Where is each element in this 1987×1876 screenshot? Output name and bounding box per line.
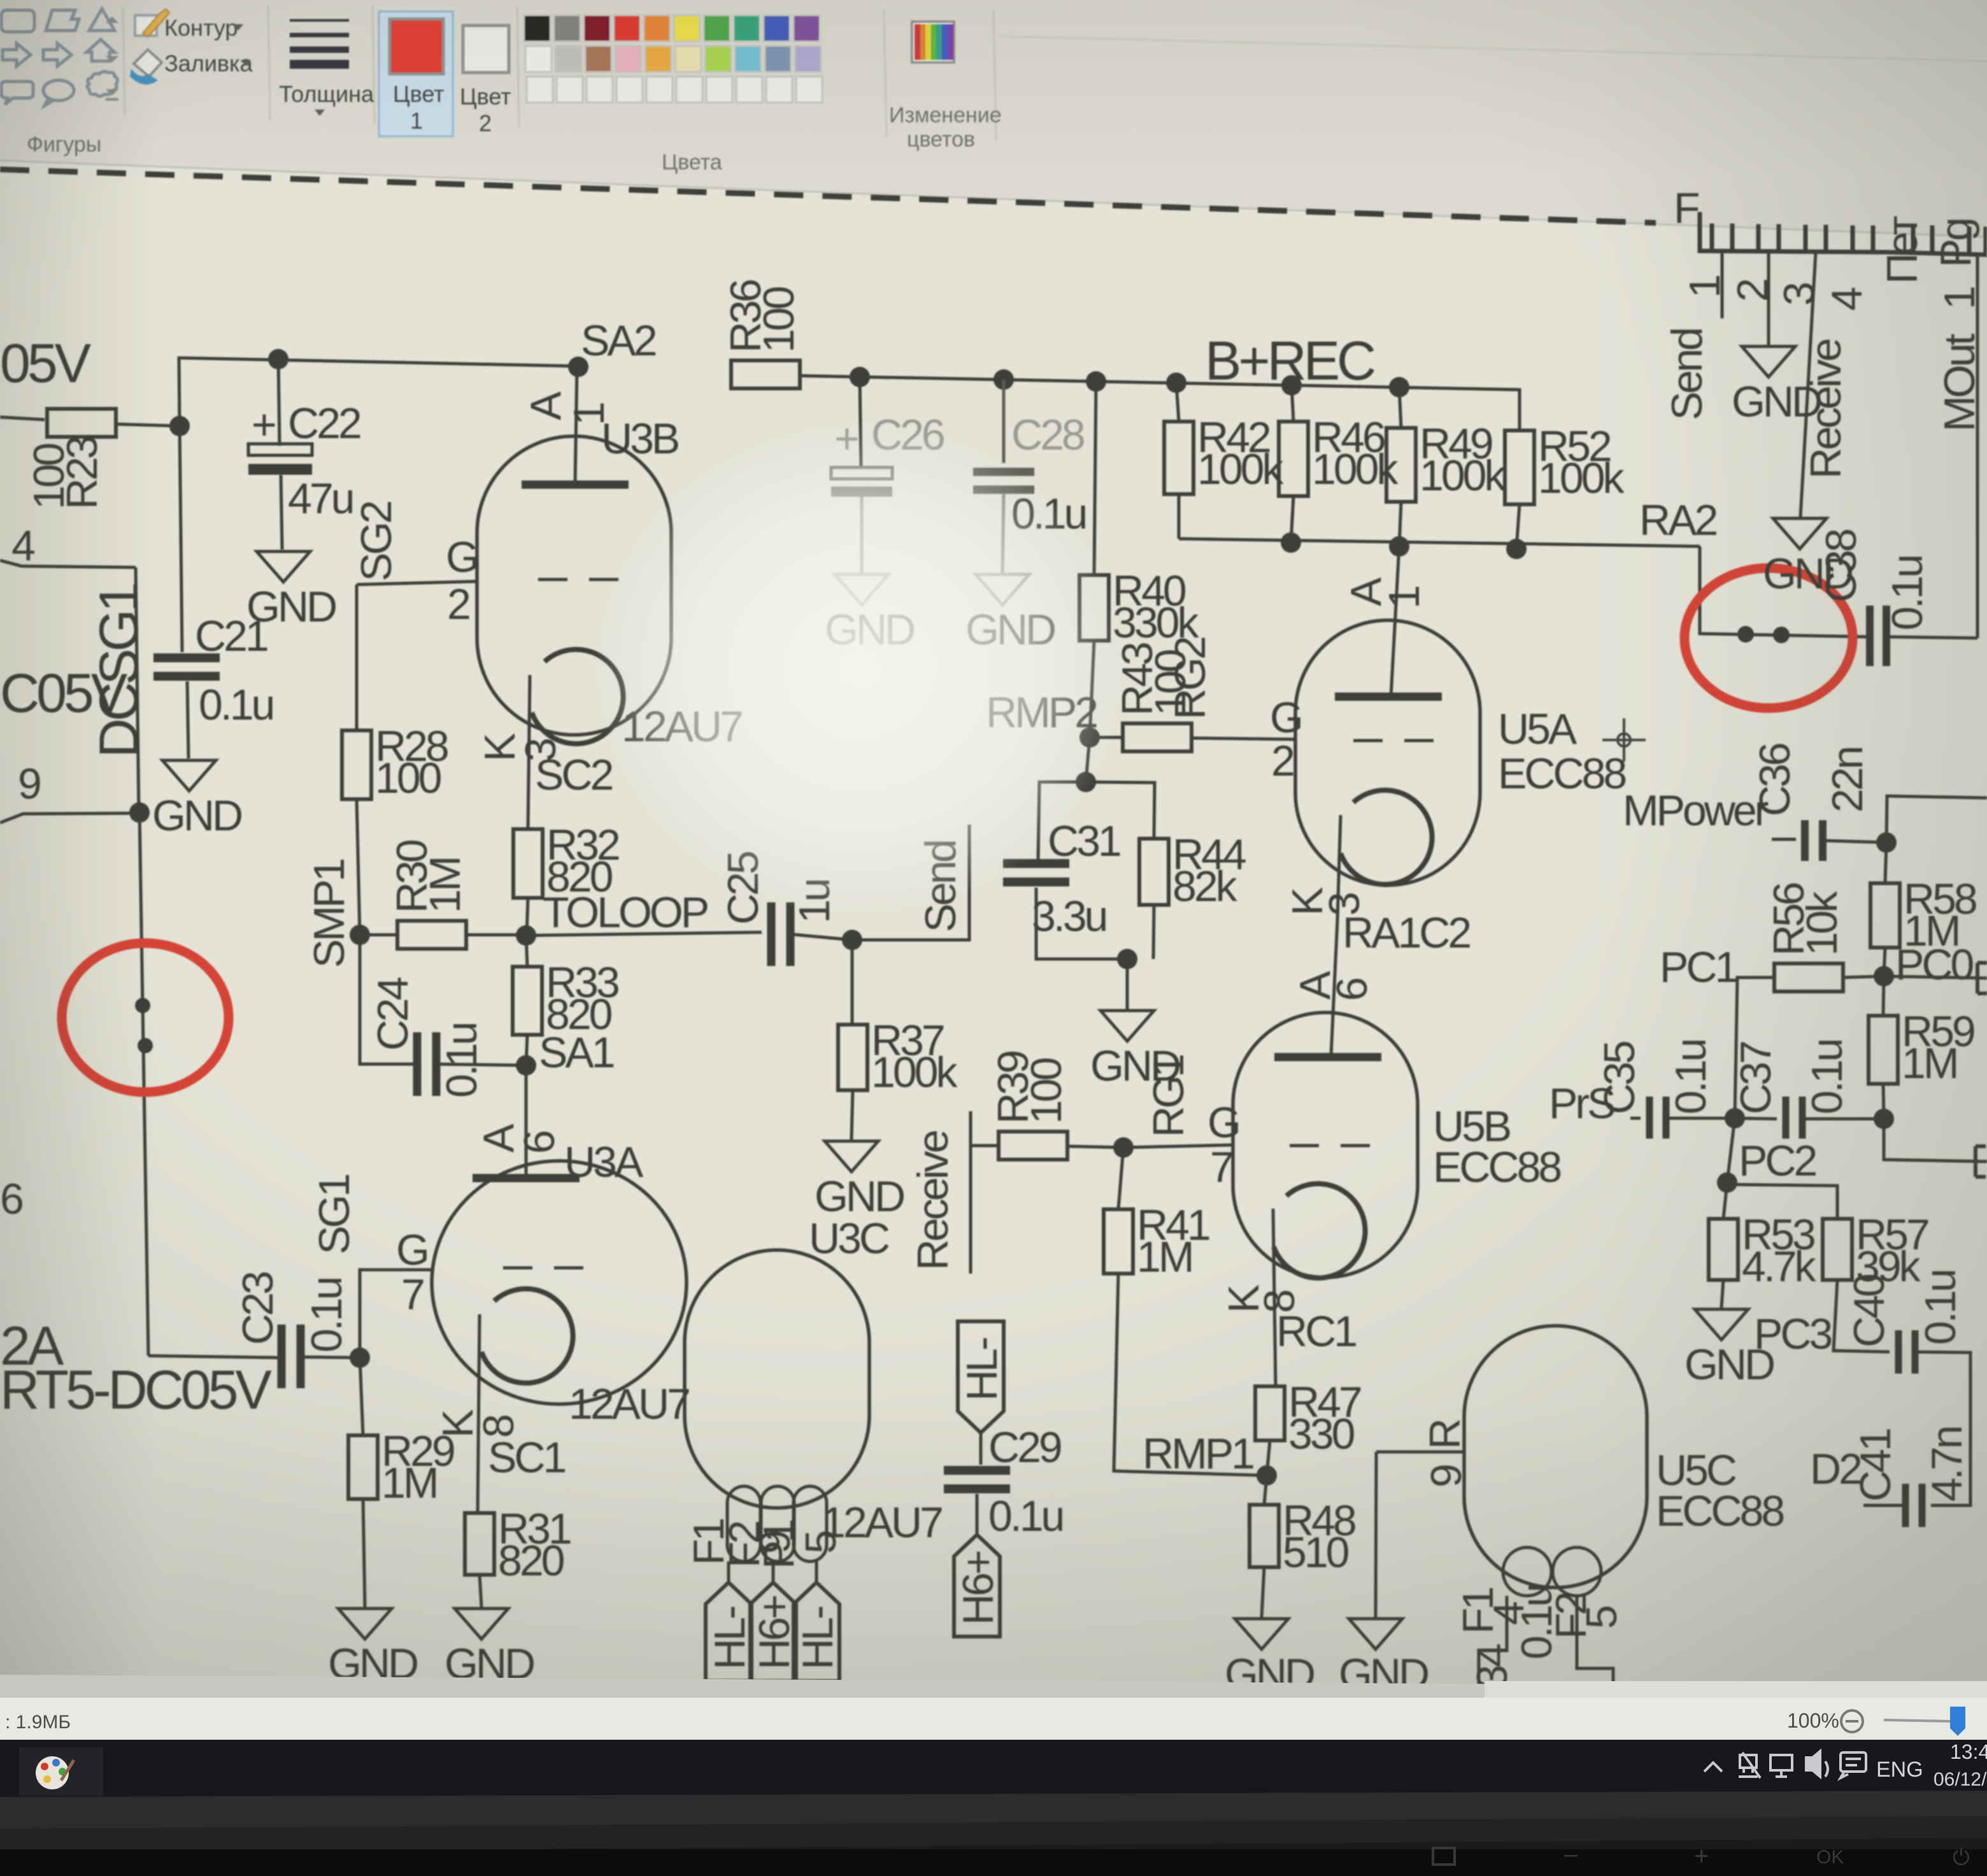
taskbar	[0, 1740, 1987, 1796]
wire R37 to ground	[851, 1090, 853, 1140]
ground under C28 (faint)	[965, 574, 1055, 654]
wire U3A cathode to R31	[478, 1314, 480, 1513]
node R42 tap	[1166, 373, 1186, 393]
triode U5C (ECC88 heater)	[1464, 1326, 1647, 1588]
wire pin9 to GND node	[0, 813, 139, 823]
U5B cathode	[1274, 1184, 1365, 1278]
U3C heater pins F1 F2 P1	[727, 1486, 760, 1561]
wire SG1 to U3A grid	[360, 1270, 434, 1358]
ground under R37	[815, 1141, 904, 1221]
resistor R48 510	[1264, 1475, 1267, 1505]
U3A cathode	[481, 1289, 573, 1383]
net PC2 column	[1727, 1118, 1735, 1183]
resistor R59 1M	[1883, 976, 1884, 1016]
wire pin4	[0, 560, 136, 567]
capacitor C22 (electrolytic 47u)	[278, 359, 280, 446]
heater wires below U5C	[1479, 1596, 1507, 1694]
wire RA2 bus to U5A anode	[1391, 546, 1399, 697]
wire R44 bottom	[1153, 905, 1154, 959]
junction dots inside red circle (left)	[135, 998, 150, 1013]
U5A cathode	[1341, 790, 1432, 885]
status bar	[0, 1698, 1987, 1740]
junction dots inside red circle (right)	[1737, 626, 1754, 643]
ground pin 3	[1763, 518, 1852, 598]
resistor R58 1M	[1885, 842, 1886, 883]
wire to right edge (D label)	[1884, 1119, 1987, 1162]
wire U5B cathode to R47	[1273, 1209, 1276, 1386]
wire TOLOOP to C25	[526, 932, 762, 935]
color 1 (selected, red)	[379, 11, 453, 136]
capacitor C38 0.1u	[1870, 606, 1886, 666]
junction C22 tap	[268, 349, 288, 369]
U5B grid (pin 7)	[1290, 1144, 1319, 1148]
wire R41 to RMP1	[1114, 1274, 1267, 1475]
global label Receive (connector)	[1800, 253, 1816, 517]
U5A anode plate	[1335, 693, 1442, 701]
ground under R53	[1684, 1309, 1774, 1389]
U3B cathode	[532, 650, 623, 744]
right edge label stubs	[1977, 963, 1987, 993]
wire U3B cathode to R32	[528, 675, 530, 829]
horizontal scrollbar	[0, 1675, 1485, 1707]
wire R31 to ground	[480, 1575, 481, 1607]
node C31/R44 top	[1076, 772, 1096, 792]
svg-text:–: –	[1564, 1841, 1578, 1868]
resistor R29 1M	[360, 1358, 363, 1435]
svg-text:ENG: ENG	[1876, 1758, 1923, 1782]
wire SA1 to U3A anode	[525, 1065, 528, 1178]
node R40 tap	[1086, 371, 1106, 392]
resistor R57 39k	[1727, 1184, 1837, 1219]
wire SA2 to U3B anode	[575, 367, 577, 485]
wire R23 to node	[116, 424, 180, 426]
global label MOut 1	[1976, 255, 1979, 638]
wire SG2 corner to R28	[355, 585, 359, 730]
resistor R23	[47, 409, 116, 437]
thickness (Tolschina)	[290, 19, 349, 22]
wire C24 to SA1	[436, 1064, 526, 1065]
wire to right edge	[1886, 796, 1987, 842]
wire R48 to ground	[1262, 1567, 1264, 1617]
ground under U5C grid	[1339, 1619, 1428, 1698]
wire C22 to ground	[281, 475, 282, 550]
svg-text:06/12/2: 06/12/2	[1934, 1769, 1987, 1790]
long wire GND net down	[139, 813, 148, 1356]
svg-text:+: +	[1694, 1842, 1709, 1870]
wire R30 to TOLOOP node	[466, 934, 525, 937]
wire C25 to Send node	[790, 934, 852, 940]
bezel	[0, 1796, 1987, 1876]
node R46 bottom	[1281, 532, 1301, 553]
RA2 lower bus	[1179, 539, 1700, 546]
capacitor C31 3.3u	[1038, 782, 1086, 861]
capacitor C40 0.1u	[1834, 1280, 1890, 1352]
red annotation circle (left)	[62, 943, 229, 1092]
resistor R41 1M	[1118, 1148, 1123, 1209]
connector (loop send/receive header)	[1700, 212, 1887, 252]
wire R39 to RG1	[1067, 1146, 1123, 1148]
ground under C22	[246, 551, 336, 631]
node SG1 tie	[350, 1347, 370, 1368]
node RMP1	[1257, 1465, 1277, 1486]
wire node to C21	[180, 426, 182, 652]
wire U5A cathode down	[1337, 815, 1341, 920]
U5A grid (pin 2)	[1353, 739, 1383, 743]
resistor R53 4.7k	[1723, 1183, 1727, 1219]
paint cursor crosshair	[1602, 718, 1646, 762]
node C31/R44 bottom	[1117, 949, 1137, 969]
color 2	[463, 25, 509, 73]
node GND tie	[129, 802, 150, 823]
node RG1	[1113, 1137, 1134, 1158]
node Send	[842, 930, 862, 950]
node SA2	[568, 357, 588, 377]
heater net labels HL- H6+ HL-	[727, 1561, 730, 1582]
resistor R44 82k	[1086, 782, 1155, 839]
wire RA1C2 to U5B anode	[1331, 920, 1337, 1056]
wire RA2 to C38	[1700, 546, 1867, 637]
U5C grid pin R9	[1376, 1451, 1464, 1454]
triode U3B (12AU7)	[477, 436, 671, 735]
node SMP1	[350, 925, 370, 945]
fill (Zalivka) button	[134, 50, 162, 76]
node C36/R58	[1876, 832, 1897, 853]
capacitor C37 0.1u	[1735, 1118, 1777, 1119]
ground under C21	[152, 760, 241, 840]
triode U3C (12AU7 heater section)	[685, 1250, 869, 1508]
wire SMP1 to C24	[360, 935, 417, 1064]
global label Send (connector)	[1721, 252, 1724, 318]
U5B anode plate	[1274, 1053, 1381, 1062]
node R49 bottom / U5A anode	[1389, 536, 1409, 557]
node TOLOOP	[516, 925, 536, 946]
outline (Kontur) button	[135, 15, 157, 36]
ground under R31	[445, 1609, 534, 1688]
node C28 tap	[993, 369, 1014, 390]
node R49 tap	[1389, 377, 1409, 397]
red annotation circle (right)	[1684, 568, 1853, 708]
wire B+REC bus	[800, 376, 1520, 430]
svg-text:⏻: ⏻	[1953, 1845, 1970, 1870]
global label Send	[852, 825, 969, 940]
ground under C31/R44	[1090, 1011, 1179, 1090]
wire to C23	[148, 1356, 278, 1358]
wire U5C grid to ground	[1376, 1452, 1376, 1617]
dashed sheet border	[0, 169, 1656, 223]
triode U5A (ECC88)	[1295, 620, 1480, 885]
wire R53 to ground	[1721, 1280, 1723, 1308]
U3A anode plate	[473, 1174, 580, 1183]
node SA1	[516, 1055, 536, 1076]
wire R29 to ground	[363, 1499, 365, 1607]
capacitor C28 0.1u	[1002, 380, 1006, 463]
resistor R37 100k	[851, 940, 854, 1025]
wire R56 to PC1 column	[1735, 977, 1774, 1118]
svg-text:OK: OK	[1816, 1847, 1844, 1868]
wire RG1 to U5B grid	[1123, 1145, 1233, 1148]
capacitor C41 4.7n	[1905, 1484, 1922, 1527]
wire R33 to SA1	[526, 1035, 527, 1065]
resistor R40 330k	[1094, 381, 1096, 575]
node R46 tap	[1281, 375, 1302, 395]
wire B+ rail to SA2	[179, 358, 578, 426]
capacitor C26 (electrolytic, washed by glare)	[860, 377, 861, 467]
ground pin 2	[1732, 346, 1821, 426]
capacitor C35 0.1u	[1630, 1117, 1641, 1120]
ground under R29	[328, 1609, 417, 1688]
wire R40 to RMP2	[1090, 641, 1094, 737]
U3B grid (pin 2)	[357, 581, 477, 585]
wire pin4 down to GND node	[136, 567, 139, 813]
U5C heater pins F1 F2	[1503, 1547, 1551, 1596]
node C26 tap	[850, 367, 870, 387]
connector pin clips	[1712, 224, 1732, 252]
wire C40 right loop to C41	[1915, 1352, 1970, 1505]
color palette	[524, 15, 550, 41]
node PC2	[1717, 1172, 1737, 1193]
wire DC05V from connector	[0, 417, 45, 420]
node PrS/PC1	[1725, 1108, 1745, 1128]
ground under R48	[1225, 1619, 1314, 1698]
node R52 bottom	[1506, 539, 1527, 559]
node R59 bottom	[1874, 1109, 1894, 1129]
wire R43 to U5A grid	[1192, 738, 1295, 739]
wire C31 bottom	[1036, 888, 1127, 959]
node RMP2	[1079, 727, 1100, 748]
capacitor C36 22n	[1772, 838, 1796, 841]
ground pin 2	[1767, 252, 1770, 345]
U3B anode plate	[522, 481, 629, 489]
wire R28 to SMP1	[357, 799, 360, 935]
wire C21 to ground	[187, 681, 189, 758]
global label Receive	[969, 1111, 972, 1274]
triode U5B (ECC88)	[1233, 1013, 1418, 1277]
capacitor C29 0.1u with HL- / H6+ labels	[958, 1321, 1006, 1433]
node PC0	[1874, 966, 1894, 986]
svg-text:13:45: 13:45	[1950, 1740, 1987, 1763]
U3A grid (pin 7)	[503, 1267, 532, 1270]
junction node B+ left	[169, 416, 190, 436]
triode U3A (12AU7)	[432, 1161, 687, 1404]
ground under C26 (faint)	[825, 574, 914, 654]
wire PC0 to edge	[1884, 976, 1987, 978]
second connector fragment	[1887, 252, 1987, 255]
